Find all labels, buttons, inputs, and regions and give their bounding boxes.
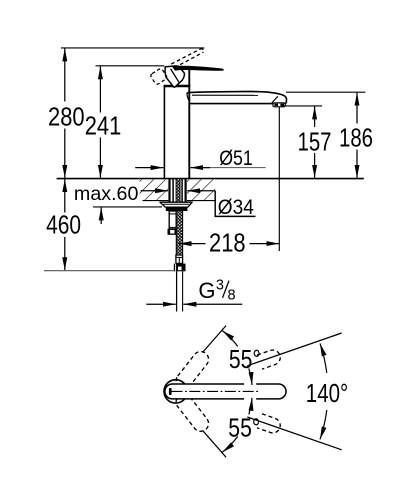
handle tick in top view	[169, 388, 172, 395]
svg-text:460: 460	[46, 210, 81, 240]
handle inner edge	[171, 69, 180, 84]
svg-text:3: 3	[216, 277, 224, 293]
max.60 arrow below	[100, 207, 102, 224]
svg-text:157: 157	[298, 126, 332, 156]
head joint band	[164, 85, 191, 87]
handle base (solid)	[165, 66, 184, 87]
dashed spout tip upper extreme	[257, 348, 282, 369]
dimension 157 with arrows	[314, 106, 316, 177]
fixing stud	[169, 211, 176, 229]
spout pill top view	[165, 384, 286, 399]
extension line 186 (spout top)	[286, 91, 365, 93]
center line	[172, 390, 259, 392]
spout	[187, 91, 287, 103]
swivel ray upper right	[247, 333, 341, 366]
flexible hose braid	[176, 211, 182, 255]
max.60 lower extension line (flange bottom)	[93, 206, 162, 208]
hose nut	[174, 264, 186, 272]
dashed spout tip lower extreme	[257, 414, 282, 435]
55 deg arc upper	[222, 331, 252, 385]
svg-text:G: G	[198, 278, 215, 303]
svg-text:Ø34: Ø34	[218, 196, 254, 219]
dimension G3/8 arrows	[146, 303, 242, 305]
svg-text:280: 280	[48, 101, 85, 131]
55 deg arc lower	[222, 398, 252, 452]
leader diameter 34 left arrow	[141, 190, 168, 192]
extension line 157 (outlet)	[282, 105, 323, 107]
washer flange below deck	[160, 202, 192, 207]
aerator	[273, 103, 285, 107]
140 deg arc	[320, 343, 327, 439]
locking nut band	[166, 207, 188, 211]
svg-text:218: 218	[209, 228, 246, 258]
dimension 460 vertical line with arrows	[64, 179, 66, 270]
deck bottom line	[143, 200, 216, 202]
swivel ray lower right	[247, 417, 341, 450]
extension line 218 (outlet center, vertical)	[278, 107, 280, 252]
svg-text:Ø51: Ø51	[219, 147, 253, 170]
label diameter 34 with box	[215, 191, 255, 219]
hose collar	[176, 255, 183, 263]
svg-text:186: 186	[339, 123, 373, 153]
dimension 241 vertical line with arrows	[99, 66, 101, 178]
lever dashed (raised position)	[171, 49, 203, 68]
fixing nut	[168, 229, 177, 235]
lever (solid, horizontal position)	[173, 66, 224, 70]
dimension 218 with arrows	[179, 243, 280, 245]
leader diameter 51 right arrow with underline	[190, 167, 265, 169]
dashed spout lower position	[173, 391, 212, 434]
dimension 280 vertical line with arrows	[64, 48, 66, 178]
dashed spout upper position	[173, 348, 212, 391]
supply pipe	[177, 271, 183, 311]
svg-text:max.60: max.60	[74, 183, 139, 205]
deck hatching left of shank	[140, 179, 169, 200]
body circle	[164, 380, 187, 403]
handle base dashed (alternate position)	[150, 68, 168, 85]
countertop deck line	[57, 178, 364, 180]
svg-text:8: 8	[227, 287, 235, 303]
leader diameter 34 right arrow	[187, 190, 215, 192]
mounting shank through deck	[170, 179, 186, 202]
extension line 460 bottom	[44, 270, 174, 272]
deck hatching right of shank	[187, 179, 215, 200]
label G 3/8	[198, 277, 235, 303]
extreme ray upper 52deg	[203, 326, 227, 353]
extreme ray lower 52deg	[203, 430, 227, 457]
svg-text:140°: 140°	[306, 378, 348, 408]
leader diameter 51 left arrow	[135, 167, 163, 169]
dimension 186 with arrows	[356, 93, 358, 178]
faucet body column	[164, 69, 189, 178]
svg-text:55°: 55°	[229, 344, 261, 374]
svg-text:55°: 55°	[228, 412, 260, 442]
extension line 241 (top of handle)	[96, 65, 165, 67]
extension line 280 (top of raised lever)	[61, 47, 204, 49]
svg-text:241: 241	[85, 110, 122, 140]
